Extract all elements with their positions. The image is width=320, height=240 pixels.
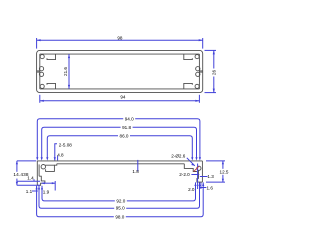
leader 2-5.08 [55,144,57,161]
leader 1.1 [32,190,38,192]
middle jaws right wall [196,67,200,71]
leader 2-o2.6 red segment [194,166,199,171]
svg-text:12.5: 12.5 [220,170,229,175]
svg-text:1.4: 1.4 [27,175,34,180]
plate top line [37,160,202,162]
boss top-right [184,54,193,60]
right wall outer [201,161,203,182]
left foot ledges [39,176,45,183]
dim 92.0 elbow [42,182,196,201]
leader 1.6 [200,187,207,189]
svg-text:21.6: 21.6 [63,67,68,76]
right foot [197,179,203,183]
svg-text:86.0: 86.0 [120,133,129,138]
arrows 94 [40,100,44,102]
svg-text:2-Ø2.6: 2-Ø2.6 [171,153,185,158]
right end extension lines [197,164,199,190]
arrows 21.6 [68,54,70,58]
middle jaws left wall [39,67,43,71]
svg-text:91.8: 91.8 [122,125,131,130]
right boss circle [197,166,201,170]
svg-text:94: 94 [120,94,126,99]
left wall outer [36,161,38,185]
boss bottom-left [47,83,56,89]
arrow 2-5.08 [54,157,56,160]
boss bottom-right [184,83,193,89]
dim 86.0 elbow [47,136,192,159]
plate bottom line [57,163,185,165]
dim 1.8 leader [137,160,139,172]
arrow 2-o2.6 [191,163,195,166]
arrows stacked top dims [36,157,38,160]
leader 2-2.0 [191,174,199,176]
right channel walls [198,170,200,178]
arrows 26 [213,50,215,54]
dim 21.6 inner [68,54,70,89]
dim 94 bottom [40,100,200,102]
boss top-left [47,54,56,60]
arrows bottom dims right [194,183,196,186]
dim 98.0 elbow [37,182,204,216]
arrows 14.438 [16,161,18,164]
right step [184,164,197,172]
svg-text:2.0: 2.0 [188,187,195,192]
dim 26 right [213,50,215,92]
svg-text:92.0: 92.0 [116,198,125,203]
svg-text:94.0: 94.0 [125,116,134,121]
svg-text:2-5.08: 2-5.08 [59,142,72,147]
svg-text:1.6: 1.6 [207,185,214,190]
svg-text:4.8: 4.8 [57,152,64,157]
dim 91.8 elbow [42,127,197,158]
svg-text:1.9: 1.9 [43,190,50,195]
dim 94.0 elbow [37,119,200,159]
leader 1.3 [200,176,208,178]
leader 2-o2.6 [187,158,195,166]
arrows 98 [37,39,41,41]
inner left wall [39,54,41,89]
leader 4.8 [57,156,59,161]
dim 95.0 elbow [39,182,200,208]
dim 98 top [37,39,203,41]
svg-text:98.0: 98.0 [115,214,124,219]
dim 1.9 [42,182,56,184]
left step [54,164,56,165]
svg-text:1.1: 1.1 [26,189,33,194]
outer body rect [37,50,203,92]
dim 14.438 left bracket [16,161,18,172]
arrows bottom dims left [41,186,43,189]
inner right wall [198,54,200,89]
text gaps (white) for inline labels [114,117,135,219]
svg-text:26: 26 [211,70,216,76]
arrows 12.5 [222,161,224,164]
svg-text:1.8: 1.8 [132,169,139,174]
svg-text:1.3: 1.3 [207,174,214,179]
dim 12.5 right bracket [222,161,224,169]
label 26 [212,69,217,77]
arrows 1.9 [42,182,45,184]
left wall inner [38,164,40,176]
left boss tab [45,165,54,171]
svg-text:95.0: 95.0 [116,206,125,211]
svg-text:2-2.0: 2-2.0 [179,172,190,177]
left boss circle [41,165,45,169]
inner bottom wall line [40,88,200,90]
svg-text:98: 98 [117,36,123,41]
leader 1.4 [33,179,35,181]
inner top wall line [40,53,200,55]
